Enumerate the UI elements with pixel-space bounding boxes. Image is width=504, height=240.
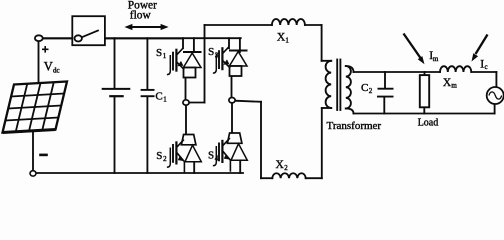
svg-text:S: S	[208, 46, 214, 58]
svg-text:m: m	[433, 55, 439, 63]
svg-text:3: 3	[215, 51, 219, 59]
svg-text:c: c	[485, 63, 488, 71]
svg-text:X: X	[276, 159, 285, 171]
svg-text:dc: dc	[53, 66, 60, 74]
svg-text:S: S	[208, 149, 214, 161]
svg-text:Load: Load	[418, 118, 439, 129]
svg-text:2: 2	[284, 164, 288, 172]
svg-text:1: 1	[163, 52, 167, 60]
svg-text:V: V	[44, 59, 53, 73]
svg-text:S: S	[156, 47, 162, 59]
svg-text:1: 1	[285, 36, 289, 44]
svg-text:flow: flow	[130, 9, 152, 21]
svg-text:4: 4	[215, 154, 219, 162]
svg-text:2: 2	[369, 87, 373, 95]
svg-text:2: 2	[163, 155, 167, 163]
svg-text:S: S	[156, 150, 162, 162]
svg-text:C: C	[361, 82, 368, 94]
svg-text:C: C	[155, 91, 162, 103]
svg-text:Transformer: Transformer	[327, 120, 382, 132]
svg-text:1: 1	[163, 96, 167, 104]
svg-text:m: m	[451, 82, 457, 90]
